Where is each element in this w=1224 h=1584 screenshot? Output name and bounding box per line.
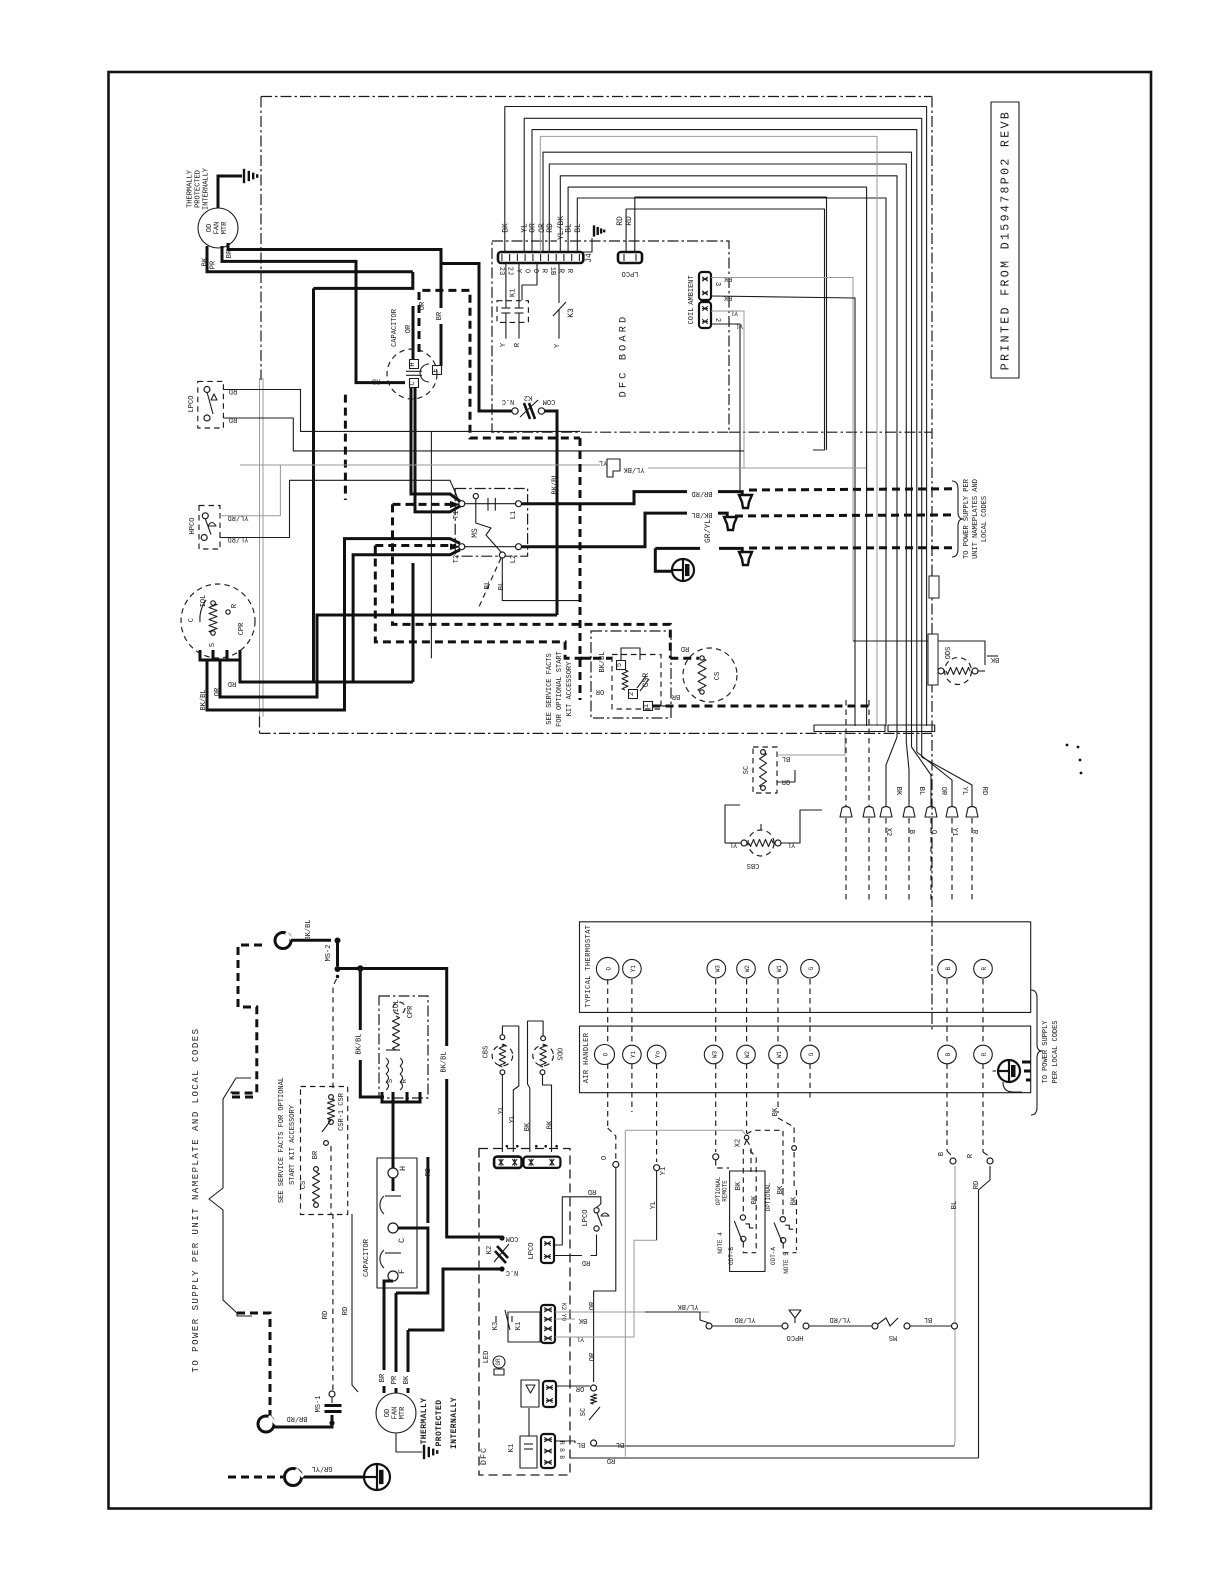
svg-text:KIT ACCESSORY: KIT ACCESSORY [566, 661, 574, 716]
svg-text:O: O [929, 830, 937, 834]
svg-text:AMBIENT: AMBIENT [688, 275, 696, 304]
svg-text:S: S [387, 1079, 395, 1083]
svg-text:5: 5 [616, 663, 624, 667]
svg-text:ODS: ODS [554, 1048, 562, 1061]
svg-text:OR: OR [529, 223, 538, 233]
svg-text:COM: COM [543, 397, 556, 405]
svg-text:O: O [531, 269, 539, 273]
svg-text:CAPACITOR: CAPACITOR [391, 308, 399, 347]
svg-text:Y1: Y1 [660, 1167, 668, 1175]
svg-text:K1: K1 [510, 289, 518, 297]
svg-text:COIL: COIL [688, 308, 696, 325]
svg-text:MS: MS [889, 1333, 897, 1341]
svg-text:LPCO: LPCO [528, 1243, 536, 1260]
svg-text:RD: RD [681, 644, 689, 652]
svg-text:DFC BOARD: DFC BOARD [618, 314, 630, 398]
svg-text:BK: BK [578, 1316, 587, 1324]
svg-text:J4: J4 [585, 253, 594, 263]
svg-text:YL/RD: YL/RD [227, 513, 248, 521]
svg-text:LPCO: LPCO [622, 269, 639, 277]
svg-text:W2: W2 [744, 1051, 751, 1059]
svg-text:YL: YL [650, 1201, 658, 1209]
svg-text:YL: YL [509, 1115, 517, 1123]
svg-text:SC: SC [743, 766, 751, 774]
svg-text:H: H [409, 362, 417, 366]
svg-text:X2: X2 [884, 828, 892, 836]
svg-text:LPCO: LPCO [188, 396, 196, 413]
svg-text:1B: 1B [548, 267, 556, 275]
svg-text:INTERNALLY: INTERNALLY [450, 1397, 459, 1449]
svg-text:BL: BL [616, 1440, 624, 1448]
svg-text:OR: OR [575, 1384, 584, 1392]
svg-text:YL: YL [498, 1106, 506, 1114]
svg-text:RD: RD [973, 1181, 981, 1189]
svg-text:BL: BL [951, 1201, 959, 1209]
svg-text:R B B: R B B [558, 1441, 565, 1459]
svg-text:THERMALLY: THERMALLY [420, 1398, 429, 1445]
svg-text:BK/BL: BK/BL [552, 473, 560, 494]
svg-text:LED: LED [483, 1351, 491, 1364]
svg-text:BR/RD: BR/RD [691, 489, 712, 497]
svg-text:BK: BK [751, 1195, 759, 1204]
svg-text:ODT-A: ODT-A [770, 1247, 777, 1265]
svg-text:YL/RD: YL/RD [829, 1315, 850, 1323]
svg-text:L2: L2 [510, 555, 518, 563]
svg-text:B: B [938, 1152, 946, 1156]
svg-text:C: C [397, 1237, 407, 1243]
svg-text:BK: BK [735, 1181, 743, 1190]
svg-text:OR: OR [589, 1352, 597, 1361]
svg-text:YL: YL [735, 321, 743, 329]
svg-text:BK/BL: BK/BL [356, 1033, 364, 1054]
svg-text:BK/BL: BK/BL [691, 510, 712, 518]
svg-text:PR: PR [391, 1375, 399, 1384]
svg-text:C: C [409, 381, 417, 385]
svg-text:BK: BK [547, 1120, 555, 1129]
svg-text:COM: COM [506, 1234, 519, 1242]
svg-text:BL: BL [924, 1315, 932, 1323]
svg-text:START KIT ACCESSORY: START KIT ACCESSORY [289, 1104, 297, 1185]
svg-text:YL: YL [576, 1334, 584, 1342]
svg-text:ODS: ODS [945, 647, 953, 660]
svg-text:W3: W3 [712, 1051, 719, 1059]
svg-text:BK: BK [501, 223, 510, 233]
svg-text:MS-1: MS-1 [315, 1396, 323, 1413]
svg-text:PROTECTED: PROTECTED [435, 1400, 444, 1447]
svg-text:B: B [907, 830, 915, 834]
svg-text:T1: T1 [453, 511, 461, 519]
svg-text:OR: OR [595, 687, 604, 695]
svg-text:YL/BK: YL/BK [623, 465, 645, 473]
svg-text:H: H [398, 1165, 408, 1171]
svg-text:CSR-1 CSR: CSR-1 CSR [338, 1092, 346, 1131]
svg-text:GR/YL: GR/YL [311, 1464, 332, 1472]
svg-text:REMOTE: REMOTE [722, 1180, 729, 1202]
svg-text:NOTE 4: NOTE 4 [717, 1232, 724, 1254]
svg-text:BL: BL [577, 1440, 585, 1448]
svg-text:LPCO: LPCO [582, 1210, 590, 1227]
svg-text:PR: PR [210, 260, 218, 269]
svg-text:BK/BL: BK/BL [441, 1051, 449, 1072]
svg-text:YL/BK: YL/BK [677, 1302, 699, 1310]
svg-text:W1: W1 [776, 1051, 783, 1059]
svg-text:L1: L1 [510, 511, 518, 519]
svg-text:MS: MS [471, 528, 480, 538]
svg-text:BR: BR [671, 692, 680, 700]
svg-text:RD: RD [229, 415, 237, 423]
svg-text:2: 2 [713, 318, 721, 322]
svg-text:BR: BR [312, 1150, 320, 1159]
svg-text:R: R [981, 967, 988, 971]
svg-text:RD: RD [607, 1456, 615, 1464]
svg-text:O: O [603, 1052, 610, 1056]
svg-text:X2: X2 [735, 1139, 743, 1147]
svg-text:BK/BL: BK/BL [599, 651, 607, 672]
svg-text:BL: BL [574, 223, 583, 233]
svg-text:YL: YL [960, 787, 968, 795]
svg-text:BL: BL [917, 787, 925, 795]
svg-text:LOCAL CODES: LOCAL CODES [981, 496, 989, 542]
svg-text:C: C [188, 618, 196, 622]
svg-text:2J: 2J [506, 267, 514, 275]
svg-text:K3: K3 [567, 308, 576, 318]
svg-text:RD: RD [625, 216, 634, 226]
svg-text:TO POWER SUPPLY PER UNIT NAMEP: TO POWER SUPPLY PER UNIT NAMEPLATE AND L… [191, 1027, 201, 1372]
svg-text:W1: W1 [776, 965, 783, 973]
svg-text:BK: BK [723, 293, 732, 301]
svg-text:RD: RD [342, 1307, 350, 1315]
svg-text:Y1: Y1 [630, 1051, 637, 1059]
svg-text:YL: YL [730, 308, 738, 316]
svg-text:N.C: N.C [506, 1268, 519, 1276]
svg-text:RD: RD [980, 787, 988, 795]
svg-text:OPTIONAL: OPTIONAL [765, 1182, 772, 1211]
svg-text:BR: BR [379, 1373, 387, 1382]
svg-text:AIR HANDLER: AIR HANDLER [583, 1032, 591, 1083]
svg-text:PER LOCAL CODES: PER LOCAL CODES [1052, 1020, 1060, 1083]
svg-text:RD: RD [616, 216, 625, 226]
svg-text:CBS: CBS [482, 1046, 490, 1059]
svg-text:OR: OR [939, 787, 947, 796]
svg-text:THERMALLY: THERMALLY [187, 169, 195, 208]
svg-text:SEE SERVICE FACTS: SEE SERVICE FACTS [546, 653, 554, 724]
svg-text:W2: W2 [744, 965, 751, 973]
svg-text:YL: YL [787, 840, 795, 848]
svg-text:RD: RD [425, 1168, 433, 1176]
svg-text:N.C: N.C [502, 397, 515, 405]
svg-text:YL: YL [729, 840, 737, 848]
svg-text:YL: YL [599, 458, 607, 466]
svg-text:1: 1 [643, 704, 651, 708]
svg-text:UNIT NAMEPLATES AND: UNIT NAMEPLATES AND [972, 479, 980, 559]
svg-text:O: O [606, 967, 613, 971]
svg-text:ODT-B: ODT-B [728, 1247, 735, 1265]
svg-text:B: B [945, 1052, 952, 1056]
svg-text:RD: RD [229, 387, 237, 395]
svg-text:F: F [397, 1268, 407, 1274]
svg-text:OR: OR [781, 777, 790, 785]
svg-text:MTR: MTR [399, 1406, 407, 1419]
svg-text:BK/BL: BK/BL [305, 919, 313, 940]
svg-text:FOR OPTIONAL START: FOR OPTIONAL START [556, 651, 564, 727]
svg-text:RD: RD [372, 377, 380, 385]
svg-text:23: 23 [497, 267, 505, 275]
svg-text:CBS: CBS [747, 861, 760, 869]
svg-text:BK: BK [772, 1107, 780, 1116]
svg-text:OR: OR [589, 1301, 597, 1310]
svg-text:BR/RD: BR/RD [286, 1414, 307, 1422]
svg-text:BK: BK [524, 1122, 532, 1131]
svg-text:BK: BK [894, 787, 902, 796]
svg-text:O: O [601, 1156, 609, 1160]
svg-text:K1: K1 [508, 1444, 516, 1452]
svg-text:YL/RD: YL/RD [734, 1315, 755, 1323]
svg-text:CAPACITOR: CAPACITOR [363, 1238, 371, 1277]
svg-text:BR: BR [436, 311, 444, 320]
svg-text:T2: T2 [453, 555, 461, 563]
svg-text:K1: K1 [515, 1322, 523, 1330]
svg-text:RD: RD [588, 1187, 596, 1195]
svg-text:K2: K2 [486, 1246, 494, 1254]
svg-text:S: S [209, 643, 217, 647]
svg-text:CS: CS [300, 1181, 308, 1189]
svg-text:B: B [945, 967, 952, 971]
svg-text:3: 3 [713, 282, 721, 286]
svg-text:HPCO: HPCO [787, 1333, 804, 1341]
svg-text:TO POWER SUPPLY: TO POWER SUPPLY [1042, 1020, 1050, 1084]
svg-text:PROTECTED: PROTECTED [195, 170, 203, 208]
svg-text:Y1: Y1 [630, 965, 637, 973]
svg-text:IOL: IOL [200, 595, 208, 608]
svg-text:IOL: IOL [393, 1000, 401, 1013]
svg-text:CS: CS [714, 672, 722, 680]
svg-text:CPR: CPR [238, 622, 246, 635]
svg-text:Y1: Y1 [950, 828, 958, 836]
svg-text:HPCO: HPCO [189, 518, 197, 535]
svg-text:SEE SERVICE FACTS FOR OPTIONAL: SEE SERVICE FACTS FOR OPTIONAL [278, 1077, 286, 1203]
svg-text:TYPICAL THERMOSTAT: TYPICAL THERMOSTAT [585, 925, 593, 1008]
svg-text:DFC: DFC [479, 1447, 489, 1465]
svg-text:2: 2 [628, 692, 636, 696]
svg-text:O: O [523, 269, 531, 273]
svg-text:RD: RD [546, 223, 555, 233]
svg-text:GR: GR [495, 1358, 502, 1366]
svg-text:Yo: Yo [655, 1051, 662, 1059]
svg-text:BK: BK [777, 1185, 785, 1194]
svg-text:RD: RD [322, 1311, 330, 1319]
svg-text:W3: W3 [714, 965, 721, 973]
svg-text:BK: BK [403, 1375, 411, 1384]
svg-text:R: R [981, 1052, 988, 1056]
svg-text:F: F [432, 368, 440, 372]
svg-text:K3: K3 [492, 1322, 500, 1330]
svg-text:K2: K2 [524, 393, 532, 401]
svg-text:GR/YL: GR/YL [704, 519, 713, 543]
svg-text:TO POWER SUPPLY PER: TO POWER SUPPLY PER [963, 478, 971, 559]
svg-text:PRINTED FROM D159478P02 REVB: PRINTED FROM D159478P02 REVB [1000, 110, 1013, 370]
svg-text:YL/RD: YL/RD [227, 535, 248, 543]
svg-text:G: G [808, 967, 815, 971]
svg-text:RD: RD [582, 1258, 590, 1266]
svg-text:CPR: CPR [407, 1005, 415, 1018]
svg-text:NOTE 5: NOTE 5 [783, 1252, 790, 1274]
svg-text:MTR: MTR [221, 221, 229, 234]
svg-text:G: G [808, 1052, 815, 1056]
svg-text:OR: OR [405, 324, 413, 333]
svg-text:INTERNALLY: INTERNALLY [203, 167, 211, 210]
svg-text:MS-2: MS-2 [325, 945, 333, 962]
svg-text:SC: SC [580, 1408, 588, 1416]
svg-text:RD: RD [228, 679, 236, 687]
svg-text:BL: BL [565, 223, 574, 233]
svg-text:BK: BK [791, 1196, 799, 1205]
